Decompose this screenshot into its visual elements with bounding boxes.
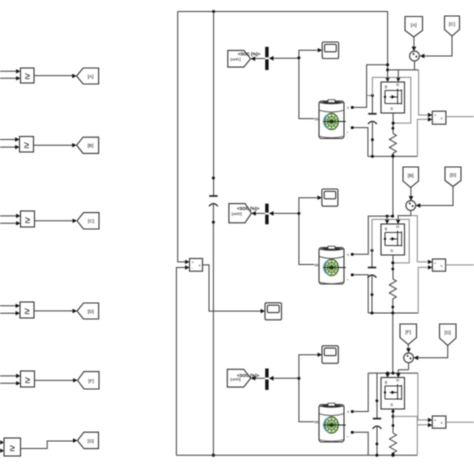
wire: source junction to right riser	[393, 416, 417, 425]
node: drain junction 2a	[386, 215, 389, 218]
svg-text:[B]: [B]	[88, 143, 94, 149]
goto tag [D]	[77, 303, 99, 319]
wire: source loop module2	[372, 219, 409, 263]
wire: series bus module2 to module3	[392, 313, 394, 373]
bus selector 1	[265, 47, 268, 70]
svg-text:[A]: [A]	[88, 74, 94, 80]
SECTION: module 2	[229, 167, 474, 373]
wire: voltage measurement output to scope4	[203, 265, 266, 313]
wire: inputs to relational operator 2	[0, 137, 20, 149]
wire: left sense line down to voltage measurement plus	[178, 12, 190, 265]
wire: battery2 plus to drain bus	[354, 216, 393, 254]
scope 1	[322, 42, 338, 59]
svg-text:+: +	[434, 418, 436, 422]
svg-text:≥: ≥	[24, 140, 29, 151]
svg-text:+: +	[347, 105, 350, 110]
wire: >=6 to goto G	[21, 438, 78, 448]
wire: drain bus riser to measurement3 top input	[418, 373, 432, 422]
svg-text:[C]: [C]	[449, 22, 455, 28]
relational operator >=3	[21, 211, 35, 227]
bus selector 3	[265, 369, 268, 390]
wire: from D to sum2	[416, 187, 453, 208]
wire: MOSFET2 source to resistor2	[391, 255, 394, 279]
wire: bottom rail	[176, 454, 417, 456]
svg-text:-: -	[347, 130, 349, 136]
wire: bus selector 1 SOC output to goto cell1	[251, 56, 265, 61]
wire: pack capacitor upper lead	[213, 12, 215, 197]
wire: sum3 output to gate drop	[396, 363, 409, 378]
relational operator >=5	[21, 371, 35, 387]
svg-text:S: S	[390, 106, 393, 111]
voltage measurement block 2	[432, 259, 445, 271]
wire: battery1 minus to rail1	[354, 128, 368, 157]
wire: inputs to relational operator 6	[0, 440, 4, 453]
node: drain junction 3a	[386, 372, 389, 375]
battery 3	[315, 403, 354, 442]
sum block 1	[410, 51, 420, 61]
svg-text:-: -	[347, 434, 349, 440]
from tag [A]	[405, 17, 423, 38]
wire: from B to sum2	[409, 188, 414, 201]
svg-text:g: g	[385, 226, 387, 231]
wire: bus selector 3 SOC output to goto cell3	[251, 376, 265, 381]
svg-text:[D]: [D]	[450, 173, 456, 179]
svg-text:[F]: [F]	[405, 330, 411, 336]
node: measurement junction 2	[297, 212, 300, 215]
wire: inputs to relational operator 1	[0, 69, 21, 80]
scope 3	[322, 346, 338, 364]
relational operator >=2	[20, 137, 34, 153]
wire: module2 bottom rail	[368, 312, 418, 315]
MOSFET Q1	[381, 82, 405, 113]
svg-text:+: +	[434, 261, 436, 265]
voltage measurement block 3	[432, 416, 446, 428]
svg-text:[D]: [D]	[88, 309, 94, 315]
capacitor C2	[368, 249, 377, 313]
wire: from F to sum3	[406, 345, 411, 353]
wire: bus selector 2 SOC output to goto cell2	[251, 211, 265, 216]
wire: battery2 minus to rail2	[354, 275, 369, 313]
relational operator >=6	[4, 438, 21, 456]
svg-text:-: -	[434, 267, 435, 271]
wire: rail1 riser to measurement1 bottom input	[417, 117, 432, 156]
svg-text:+: +	[347, 252, 350, 257]
svg-text:-: -	[434, 119, 435, 123]
svg-text:+: +	[192, 260, 194, 264]
from tag [D]	[445, 167, 461, 187]
svg-text:[G]: [G]	[87, 438, 93, 444]
svg-text:-: -	[347, 277, 349, 283]
svg-text:[C]: [C]	[88, 219, 94, 225]
svg-text:≥: ≥	[25, 71, 30, 82]
svg-text:-: -	[434, 424, 435, 428]
svg-text:[cell1]: [cell1]	[231, 57, 241, 62]
svg-text:<SOC (%)>: <SOC (%)>	[238, 51, 261, 56]
scope 2	[322, 189, 338, 206]
svg-text:≥: ≥	[24, 306, 29, 317]
wire: module1 bottom rail	[368, 155, 418, 158]
from tag [G]	[440, 324, 457, 346]
wire: measurement2 output to edge	[446, 264, 474, 266]
svg-text:D: D	[396, 377, 399, 382]
node: top bus tap	[212, 10, 215, 13]
wire: top bus from pack positive	[178, 11, 388, 13]
capacitor C3	[373, 373, 382, 455]
goto tag [G]	[77, 432, 98, 448]
wire: drain bus module1	[385, 12, 390, 83]
wire: battery3 plus to drain bus	[354, 373, 369, 411]
wire: inputs to relational operator 5	[0, 374, 21, 386]
from tag [B]	[403, 167, 419, 188]
svg-text:[G]: [G]	[444, 330, 450, 336]
bus selector 2	[265, 204, 268, 225]
MOSFET Q2	[381, 224, 405, 255]
SECTION: module 1	[228, 12, 474, 217]
wire: sum2 output to gate drop	[396, 210, 411, 224]
wire: gate rail to measurement1 top input	[419, 70, 433, 117]
wire: >=1 to goto A	[34, 74, 77, 78]
svg-text:D: D	[396, 224, 399, 229]
resistor R1	[389, 133, 396, 157]
wire: >=3 to goto C	[35, 219, 78, 223]
wire: voltage measurement minus to bottom rail	[176, 265, 189, 455]
wire: battery3 minus to bottom rail	[354, 432, 369, 455]
resistor R3	[390, 433, 397, 455]
svg-text:D: D	[396, 82, 399, 87]
from tag [F]	[400, 324, 417, 345]
wire: bottom rail riser to measurement3 bottom input	[417, 423, 432, 455]
wire: MOSFET3 source to resistor3	[392, 409, 395, 433]
node: drain junction 2b	[391, 215, 394, 218]
node: measurement junction 3	[297, 377, 300, 380]
relational operator >=1	[21, 68, 35, 83]
capacitor C pack	[209, 177, 218, 224]
svg-text:[cell2]: [cell2]	[232, 211, 242, 216]
wire: junction to scope2	[299, 196, 322, 214]
svg-text:+: +	[347, 410, 350, 415]
wire: sum1 output to gate rail	[388, 61, 419, 70]
wire: from G to sum3	[414, 346, 448, 361]
voltage measurement V pack	[190, 259, 203, 272]
goto tag [cell3]	[227, 369, 250, 387]
svg-text:g: g	[385, 379, 387, 384]
node: measurement junction 1	[297, 56, 300, 59]
svg-text:<SOC (%)>: <SOC (%)>	[237, 373, 260, 378]
wire: source loop module1	[372, 77, 410, 123]
svg-text:S: S	[390, 248, 393, 253]
goto tag [C]	[77, 213, 99, 229]
svg-text:<SOC (%)>: <SOC (%)>	[237, 206, 260, 211]
wire: sum2 to measurement2 top input	[411, 216, 433, 264]
battery 1	[315, 100, 354, 139]
scope 4 pack voltage	[265, 303, 282, 320]
wire: rail2 riser to measurement2 bottom input	[418, 265, 432, 313]
voltage measurement block 1	[432, 111, 446, 124]
wire: junction to scope1	[299, 48, 322, 58]
wire: from C to sum1	[420, 36, 452, 58]
svg-text:≥: ≥	[25, 215, 30, 226]
node: drain junction 3b	[392, 372, 395, 375]
svg-text:≥: ≥	[25, 375, 30, 386]
goto tag [B]	[77, 137, 99, 153]
svg-text:[F]: [F]	[88, 378, 94, 384]
resistor R2	[389, 279, 396, 313]
wire: from A to sum1	[412, 37, 417, 51]
wire: battery3 measurement to junction	[269, 376, 314, 422]
from tag [C]	[445, 16, 460, 36]
wire: drain drop module2	[385, 216, 390, 224]
wire: inputs to relational operator 4	[0, 304, 20, 316]
wire: inputs to relational operator 3	[0, 214, 21, 226]
sum block 2	[406, 201, 416, 211]
wire: >=4 to goto D	[34, 309, 77, 313]
wire: >=5 to goto F	[35, 378, 78, 382]
relational operator >=4	[20, 302, 34, 318]
wire: gate drop module1	[396, 70, 401, 82]
node: drain junction 1b	[386, 68, 389, 71]
capacitor C1	[367, 94, 377, 156]
svg-text:m: m	[315, 262, 319, 267]
wire: series bus module1 to module2	[392, 156, 394, 216]
goto tag [cell1]	[228, 50, 251, 67]
svg-text:v: v	[199, 263, 201, 267]
wire: junction to scope3	[299, 353, 322, 379]
wire: drain drop module3	[385, 373, 390, 378]
svg-text:[A]: [A]	[411, 22, 417, 28]
svg-text:m: m	[315, 420, 319, 425]
wire: battery1 plus to drain bus	[354, 65, 388, 108]
svg-text:+: +	[434, 114, 436, 118]
node: drain junction 1a	[386, 63, 389, 66]
svg-text:m: m	[315, 116, 319, 121]
svg-text:≥: ≥	[10, 443, 15, 454]
SECTION: module 3	[227, 324, 474, 457]
wire: drain bus module3	[368, 372, 418, 374]
svg-text:[B]: [B]	[408, 173, 414, 179]
goto tag [A]	[77, 68, 99, 84]
battery 2	[315, 246, 354, 284]
wire: >=2 to goto B	[34, 143, 77, 147]
goto tag [cell2]	[229, 204, 252, 223]
wire: battery2 measurement to junction	[269, 211, 314, 264]
MOSFET Q3	[381, 377, 405, 409]
SECTION: left comparator column	[0, 68, 99, 456]
svg-text:S: S	[390, 402, 393, 407]
wire: measurement1 output to edge	[446, 116, 474, 118]
node: rail dots module3	[375, 454, 394, 457]
sum block 3	[404, 353, 414, 363]
goto tag [F]	[78, 372, 100, 389]
wire: MOSFET1 source to resistor1	[392, 113, 395, 133]
wire: measurement3 output to edge	[446, 421, 474, 423]
wire: pack capacitor lower lead to bottom rail	[212, 222, 215, 457]
wire: battery1 measurement to junction	[269, 56, 314, 119]
SECTION: pack-level wires	[176, 10, 417, 457]
svg-text:g: g	[385, 84, 387, 89]
